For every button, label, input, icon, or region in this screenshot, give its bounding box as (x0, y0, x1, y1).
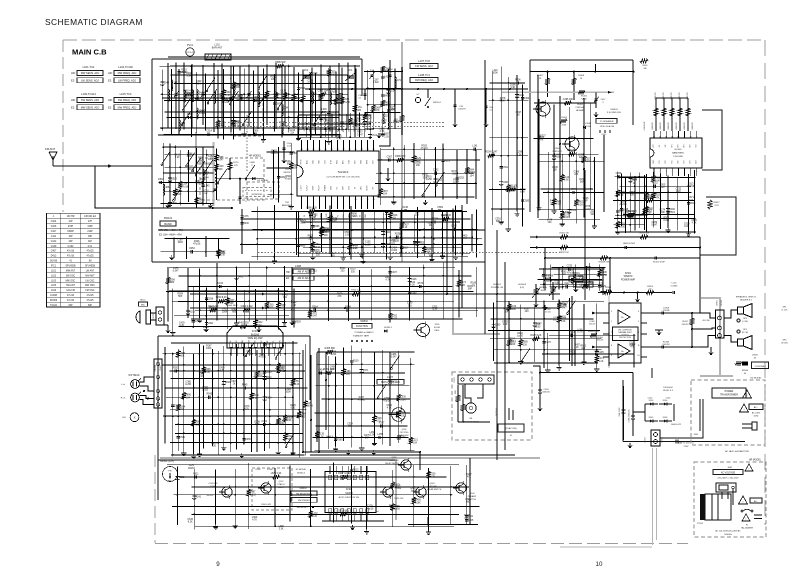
junction (236, 442, 238, 444)
wire (328, 356, 330, 449)
switch contact arm (162, 152, 170, 164)
wire (677, 178, 679, 231)
junction (274, 111, 276, 113)
capacitor C292 (434, 172, 436, 175)
svg-text:104: 104 (395, 487, 400, 489)
svg-text:47K: 47K (539, 140, 544, 142)
capacitor D513 (168, 177, 172, 179)
wire (165, 238, 230, 240)
resistor R578 (557, 302, 561, 309)
IC302 pin bottom 3 (341, 509, 344, 514)
resistor R405 (687, 98, 689, 131)
junction (625, 214, 627, 216)
transistor Q2603 AF AMP (565, 137, 579, 151)
junction B+ rail (401, 88, 403, 90)
wire (614, 224, 645, 226)
junction (324, 128, 326, 130)
wire (423, 149, 425, 199)
IC302 pin top 9 (360, 475, 363, 480)
wire (575, 152, 577, 224)
diode D503 (645, 403, 658, 405)
junction (277, 364, 279, 366)
svg-text:8: 8 (343, 199, 344, 201)
junction (193, 387, 195, 389)
junction (256, 415, 258, 417)
AF block frame right (632, 60, 634, 125)
wire tuner bank (355, 69, 357, 127)
wire (175, 432, 302, 434)
resistor C555 (616, 221, 620, 228)
deck motor dashed box (452, 372, 532, 440)
tuner inner rail y230 (158, 229, 485, 231)
junction (215, 486, 217, 488)
board outline dashed left upper (62, 40, 64, 212)
junction (634, 218, 636, 220)
resistor C173 (595, 356, 599, 363)
capacitor R245 (263, 342, 266, 344)
wire (291, 267, 293, 320)
junction (343, 437, 345, 439)
svg-text:1u/50: 1u/50 (391, 318, 398, 320)
wire (192, 286, 194, 328)
bus wire 660K upper (190, 293, 560, 295)
svg-text:R553: R553 (280, 305, 286, 307)
svg-text:C189: C189 (345, 371, 351, 373)
tuner rail y98 (162, 97, 300, 99)
svg-text:R109: R109 (511, 306, 517, 308)
wire (345, 114, 347, 137)
junction (230, 370, 232, 372)
wire (179, 326, 287, 328)
junction (169, 166, 171, 168)
svg-text:D450: D450 (415, 500, 421, 502)
resistor R655 (391, 504, 395, 511)
resistor R145 (173, 189, 177, 196)
capacitor D252 (456, 176, 459, 178)
transistor Q301 bias osc (392, 408, 406, 422)
wire (351, 345, 353, 447)
wire (521, 85, 523, 227)
svg-text:5: 5 (325, 199, 326, 201)
svg-text:E2 MODEL: E2 MODEL (750, 378, 762, 380)
wire (161, 93, 349, 95)
svg-text:CR303: CR303 (454, 377, 456, 383)
wire (292, 341, 294, 451)
junction (335, 100, 337, 102)
svg-text:LR402: LR402 (561, 117, 568, 119)
resistor R106 (220, 92, 224, 99)
svg-text:R264: R264 (312, 307, 318, 309)
junction (310, 83, 312, 85)
tuner rail y135 (158, 134, 340, 136)
wire (456, 150, 458, 199)
IC302 pin top 11 (347, 475, 350, 480)
wire (694, 170, 696, 233)
junction (350, 218, 352, 220)
junction (660, 214, 662, 216)
junction (296, 238, 298, 240)
svg-text:D519: D519 (669, 212, 675, 214)
speaker connector CN601 (716, 310, 725, 338)
svg-text:47K: 47K (467, 476, 472, 478)
IC302 pin bottom 5 (353, 509, 356, 514)
junction (500, 99, 502, 101)
svg-text:JM: JM (88, 261, 91, 263)
svg-text:(E2)MODEL: (E2)MODEL (252, 194, 264, 196)
junction (191, 111, 193, 113)
svg-text:47u/16: 47u/16 (259, 357, 267, 359)
svg-text:1u/50: 1u/50 (410, 491, 417, 493)
svg-text:R685: R685 (300, 245, 306, 247)
svg-text:R280: R280 (266, 372, 272, 374)
junction (203, 433, 205, 435)
junction (310, 494, 312, 496)
resistor L678 (273, 475, 280, 479)
junction (167, 86, 169, 88)
shield wire gray speaker vertical (608, 296, 610, 368)
junction (196, 111, 198, 113)
resistor C549 (388, 212, 392, 219)
IC U401 pin 2 (659, 168, 661, 176)
wire (561, 154, 563, 222)
wire (164, 347, 166, 444)
svg-text:11: 11 (361, 199, 363, 201)
capacitor R325 (415, 241, 419, 243)
wire (164, 100, 337, 102)
junction (409, 318, 411, 320)
svg-text:C413: C413 (195, 321, 201, 323)
svg-text:1u/50: 1u/50 (601, 275, 608, 277)
wire (401, 67, 403, 135)
switch contact arm (246, 165, 255, 178)
junction (291, 309, 293, 311)
wire (203, 345, 205, 448)
svg-text:200K: 200K (562, 125, 567, 127)
junction (435, 148, 437, 150)
junction (203, 396, 205, 398)
capacitor C260 (452, 228, 454, 231)
AF block frame top (530, 59, 633, 61)
switch contact arm (314, 111, 323, 124)
wire (410, 358, 412, 451)
svg-text:10K: 10K (177, 194, 182, 196)
svg-text:1K: 1K (393, 218, 396, 220)
switch contact arm (568, 301, 576, 313)
switch contact arm (392, 356, 400, 368)
junction (179, 166, 181, 168)
capacitor D138 (403, 209, 405, 212)
svg-text:50/60Hz: 50/60Hz (724, 534, 732, 536)
capacitor C664 (177, 70, 180, 72)
wire (359, 270, 361, 319)
svg-text:FM FREQ. ADJ: FM FREQ. ADJ (415, 78, 434, 82)
junction (315, 133, 317, 135)
junction (442, 228, 444, 230)
resistor C154 (178, 181, 182, 188)
svg-text:10K: 10K (271, 79, 276, 81)
junction (310, 228, 312, 230)
capacitor R298 (616, 209, 619, 211)
junction (646, 214, 648, 216)
svg-text:C154: C154 (182, 184, 188, 186)
wire (547, 152, 549, 218)
wire (223, 346, 225, 445)
svg-text:1u/50: 1u/50 (185, 384, 192, 386)
capacitor C580 (492, 323, 496, 325)
wire (389, 266, 391, 323)
junction (264, 364, 266, 366)
resistor C427 (400, 222, 404, 229)
svg-text:C449: C449 (218, 166, 224, 168)
junction (264, 433, 266, 435)
junction (206, 315, 208, 317)
wire (171, 342, 298, 344)
svg-text:0.01: 0.01 (561, 321, 566, 323)
ground (575, 287, 577, 289)
resistor C514 (642, 207, 646, 214)
svg-text:13: 13 (335, 478, 337, 480)
resistor R119 (337, 93, 341, 100)
IC U101 pin 13 (367, 140, 369, 151)
resistor C337 (225, 298, 229, 305)
capacitor R445 (243, 386, 245, 389)
junction (253, 100, 255, 102)
svg-text:D406: D406 (601, 272, 607, 274)
wire (507, 77, 509, 227)
svg-text:8.2K: 8.2K (319, 437, 324, 439)
wires heads to connector (139, 377, 154, 382)
wire (256, 207, 258, 260)
svg-text:2: 2 (307, 199, 308, 201)
svg-text:10: 10 (354, 199, 356, 201)
svg-text:FUNCTION: FUNCTION (356, 326, 368, 328)
junction (688, 218, 690, 220)
svg-text:8.2K: 8.2K (188, 522, 193, 524)
junction (236, 300, 238, 302)
resistor R583 (509, 188, 516, 192)
wire (367, 70, 369, 130)
capacitor D602 (159, 181, 161, 184)
wire AF vertical 4 (603, 135, 605, 212)
wire (278, 147, 280, 203)
svg-text:SW SENS. ADJ: SW SENS. ADJ (81, 98, 100, 102)
capacitor C532 (177, 435, 180, 437)
svg-text:D522: D522 (571, 210, 577, 212)
shield wire gray speaker area (701, 298, 720, 360)
junction B+ rail (373, 88, 375, 90)
IC303 pin 5 (254, 343, 257, 347)
svg-text:C426: C426 (411, 279, 417, 281)
svg-text:RF IN: RF IN (301, 159, 303, 164)
junction (236, 415, 238, 417)
junction (236, 378, 238, 380)
wire (187, 150, 189, 202)
ground (688, 232, 690, 234)
head R ch (131, 393, 140, 402)
svg-text:E2: LW<->MW<->FM: E2: LW<->MW<->FM (159, 234, 182, 237)
resistor C535 (397, 394, 401, 401)
wire (178, 301, 286, 303)
svg-text:R5405: R5405 (581, 96, 588, 98)
svg-text:R432: R432 (391, 382, 397, 384)
ground (455, 255, 457, 257)
junction (389, 372, 391, 374)
ground (284, 320, 286, 322)
ground C51H (539, 406, 541, 408)
svg-text:R174: R174 (460, 282, 466, 284)
capacitor C232 (567, 267, 569, 270)
wire (166, 396, 294, 398)
wire (175, 423, 299, 425)
svg-text:56P: 56P (287, 164, 292, 166)
junction (183, 433, 185, 435)
junction (298, 133, 300, 135)
svg-text:R306: R306 (253, 131, 259, 133)
capacitor C214 (386, 89, 390, 91)
capacitor R534 (346, 309, 348, 312)
svg-text:D501 680: D501 680 (338, 510, 349, 512)
resistor R117 (319, 93, 323, 100)
capacitor D270 (558, 315, 561, 317)
svg-text:IN2: IN2 (665, 145, 667, 148)
switch contact arm (187, 153, 195, 165)
capacitor L695 (560, 211, 564, 213)
svg-text:C580: C580 (495, 325, 501, 327)
junction (188, 154, 190, 156)
svg-text:6: 6 (361, 511, 362, 513)
wire (281, 67, 283, 138)
wire tuner-mid vertical a (446, 210, 448, 294)
svg-text:R405 680: R405 680 (325, 348, 336, 350)
resistor C460 (582, 285, 589, 289)
wire tuner bank (183, 63, 185, 130)
wire (298, 252, 470, 254)
svg-text:LW ANT: LW ANT (86, 269, 95, 272)
svg-text:C263 56P: C263 56P (567, 150, 578, 152)
wire (493, 302, 495, 361)
svg-text:100K: 100K (415, 502, 421, 504)
resistor RR418 (600, 256, 608, 260)
ground speaker (710, 347, 712, 350)
svg-text:100K: 100K (208, 159, 214, 161)
svg-text:SW403: SW403 (610, 109, 618, 111)
transistor Q363 solar switch (416, 487, 426, 497)
svg-text:L106: L106 (51, 290, 57, 292)
ground (361, 253, 363, 255)
svg-text:R245: R245 (266, 344, 272, 346)
junction (617, 231, 619, 233)
junction (333, 486, 335, 488)
junction (223, 433, 225, 435)
junction (617, 200, 619, 202)
junction (413, 172, 415, 174)
IC303 pin 8 (273, 343, 276, 347)
junction (328, 111, 330, 113)
junction (599, 274, 601, 276)
svg-text:4.7K: 4.7K (336, 139, 341, 141)
svg-text:47u/16: 47u/16 (366, 508, 374, 510)
wires motor (465, 384, 471, 403)
svg-text:D138: D138 (402, 207, 408, 209)
IC303 pin 9 (279, 343, 282, 347)
AC box hr (750, 498, 762, 503)
svg-text:D471: D471 (238, 276, 244, 278)
wire (300, 236, 473, 238)
svg-text:RR421 5K: RR421 5K (559, 252, 569, 254)
svg-text:D644: D644 (323, 232, 329, 234)
junction (349, 252, 351, 254)
svg-text:C589: C589 (437, 207, 443, 209)
svg-text:R183: R183 (555, 157, 561, 159)
wire (398, 351, 400, 443)
svg-text:L143: L143 (204, 186, 210, 188)
wire (161, 251, 225, 253)
IC U401 pin 3 (665, 168, 667, 176)
svg-text:(L CP): (L CP) (782, 310, 788, 312)
wire (243, 290, 245, 329)
svg-text:AM IF ADJ: AM IF ADJ (298, 277, 311, 280)
svg-text:L323: L323 (384, 115, 390, 117)
svg-text:TO SPEAKER: TO SPEAKER (600, 120, 614, 123)
wire tuner bank (191, 64, 193, 128)
junction (428, 525, 430, 527)
svg-text:R289 680: R289 680 (395, 156, 406, 158)
junction (596, 362, 598, 364)
junction (306, 128, 308, 130)
diode L010B (583, 126, 586, 129)
junction (394, 104, 396, 106)
junction (162, 146, 164, 148)
wire (458, 270, 460, 318)
resistor R289 (397, 158, 404, 162)
junction (248, 300, 250, 302)
junction (177, 424, 179, 426)
junction (370, 318, 372, 320)
svg-text:L173: L173 (312, 513, 318, 515)
capacitor R311 (653, 185, 655, 188)
wire (264, 342, 266, 451)
wire to bridge (540, 372, 633, 374)
svg-text:D673: D673 (394, 484, 400, 486)
svg-text:47u/16: 47u/16 (193, 243, 201, 245)
svg-text:4.7K: 4.7K (252, 520, 257, 522)
capacitor C266 (499, 181, 503, 183)
junction (500, 155, 502, 157)
resistor R230 (218, 299, 225, 303)
resistor R403 (671, 98, 673, 131)
wire (489, 82, 525, 84)
svg-text:R129: R129 (415, 158, 421, 160)
svg-text:14: 14 (665, 136, 667, 138)
svg-text:4.7K: 4.7K (432, 309, 437, 311)
wire tuner bank (347, 63, 349, 130)
junction (361, 425, 363, 427)
capacitor R264 (313, 309, 315, 312)
svg-text:AUTO FUNCTION SW.: AUTO FUNCTION SW. (339, 496, 360, 499)
svg-text:47u/16: 47u/16 (67, 251, 75, 253)
svg-text:3300P: 3300P (67, 231, 74, 233)
svg-text:GOL FM: GOL FM (66, 290, 75, 292)
svg-text:SFU455B: SFU455B (85, 266, 95, 268)
junction (167, 291, 169, 293)
wire (165, 111, 339, 113)
bus vertical 4 (584, 170, 586, 300)
svg-text:3.3K: 3.3K (310, 220, 315, 222)
shield gray AF input (502, 91, 614, 93)
svg-text:22K: 22K (553, 170, 558, 172)
svg-text:D504: D504 (663, 400, 668, 402)
capacitor D133 (433, 178, 437, 180)
